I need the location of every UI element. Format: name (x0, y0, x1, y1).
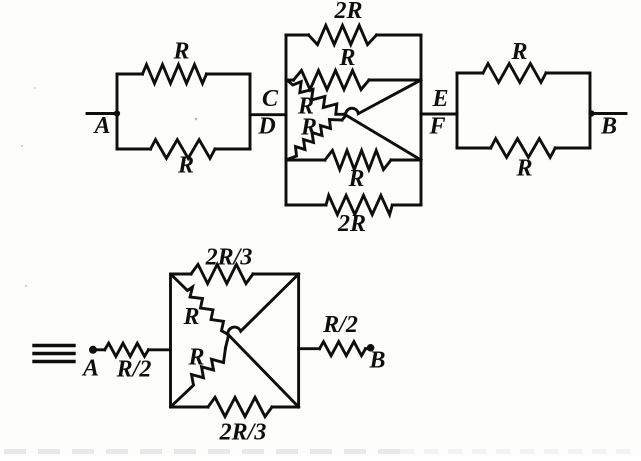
svg-text:R: R (347, 166, 364, 192)
wire bottom box left vertical (169, 274, 172, 407)
wire bottom edge right stub bottom box (272, 406, 299, 409)
wire lead out of node B (592, 112, 627, 115)
wire node C-D rail (250, 113, 286, 116)
wire top edge left stub bottom box (171, 273, 192, 276)
svg-text:A: A (92, 113, 110, 139)
wire diagonal to lower-right corner bottom box (228, 334, 299, 407)
resistor R bottom of right pair (491, 139, 556, 158)
wire lower rail right stub (391, 159, 421, 162)
resistor R/2 right (320, 342, 366, 356)
svg-text:B: B (600, 114, 617, 140)
wire node A to R/2 (97, 348, 105, 351)
svg-text:R: R (510, 39, 527, 65)
wire top edge right stub bottom box (253, 273, 299, 276)
svg-text:R: R (177, 153, 194, 179)
wire R/2 to box left edge (149, 348, 171, 351)
svg-text:E: E (431, 86, 448, 112)
wire bottom-left branch (117, 148, 151, 151)
wire top-left branch (117, 73, 143, 76)
svg-text:2R: 2R (337, 211, 366, 237)
resistor 2R bottom edge (326, 195, 392, 214)
svg-text:R: R (515, 156, 532, 182)
wire top-right branch right box (546, 72, 590, 75)
equivalence symbol (34, 344, 74, 347)
resistor R top of right pair (483, 64, 546, 83)
svg-text:R: R (300, 115, 317, 141)
wire top-left branch right box (457, 72, 483, 75)
resistor 2R top edge (309, 25, 377, 44)
wire top-right branch (207, 73, 251, 76)
wire upper rail right stub (369, 79, 421, 82)
svg-text:F: F (428, 114, 445, 140)
wire left vertical of right parallel pair (456, 73, 459, 148)
svg-text:2R/3: 2R/3 (205, 245, 253, 271)
wire diagonal with hop to upper-right corner bottom box (226, 274, 299, 348)
wire lead into node A (87, 112, 117, 115)
svg-text:R: R (172, 39, 189, 65)
svg-text:R: R (182, 304, 199, 330)
svg-text:D: D (257, 114, 275, 140)
svg-text:A: A (81, 356, 99, 382)
svg-text:R/2: R/2 (322, 312, 358, 338)
svg-text:R: R (187, 345, 204, 371)
wire R/2 to node B (366, 347, 371, 350)
resistor R bottom of left pair (151, 140, 216, 159)
wire middle box left vertical (285, 35, 288, 205)
resistor R upper diagonal bottom box (171, 275, 228, 335)
wire right vertical of left parallel pair (249, 74, 252, 149)
wire top edge left stub (286, 34, 309, 37)
svg-text:B: B (368, 348, 385, 374)
wire upper rail left stub (286, 79, 294, 82)
svg-text:R: R (338, 45, 355, 71)
node A dot (equivalent circuit) (89, 346, 97, 354)
resistor R lower diagonal bottom box (171, 348, 226, 407)
svg-text:2R: 2R (333, 0, 362, 24)
wire bottom-left branch right box (457, 147, 491, 150)
resistor R upper diagonal (288, 81, 345, 115)
node B junction dot (588, 110, 594, 116)
wire node E-F rail (421, 113, 457, 116)
wire bottom-right branch (215, 148, 250, 151)
wire lower rail left stub (286, 159, 325, 162)
wire bottom box right vertical (297, 274, 300, 407)
wire diagonal with hop to upper-right corner (342, 80, 421, 120)
resistor R/2 left (105, 343, 149, 356)
wire box right edge to R/2 (299, 347, 320, 350)
svg-text:2R/3: 2R/3 (219, 420, 267, 446)
wire right vertical of right parallel pair (589, 73, 592, 148)
wire bottom edge right stub (392, 204, 421, 207)
wire left vertical of left parallel pair (116, 74, 119, 149)
wire bottom edge left stub (286, 204, 326, 207)
node A junction dot (114, 110, 120, 116)
resistor R upper rail (294, 70, 370, 89)
resistor 2R/3 bottom (208, 397, 272, 416)
resistor R lower diagonal (288, 120, 343, 160)
wire middle box right vertical (420, 35, 423, 205)
node B dot (equivalent circuit) (367, 344, 375, 352)
wire bottom edge left stub bottom box (171, 406, 209, 409)
wire bottom-right branch right box (555, 147, 590, 150)
svg-text:R/2: R/2 (116, 357, 152, 383)
resistor R top of left pair (143, 65, 207, 84)
resistor 2R/3 top (191, 264, 253, 283)
svg-text:C: C (262, 86, 279, 112)
wire diagonal to lower-right corner (345, 114, 422, 160)
resistor R lower rail (325, 150, 391, 169)
wire top edge right stub (377, 34, 422, 37)
